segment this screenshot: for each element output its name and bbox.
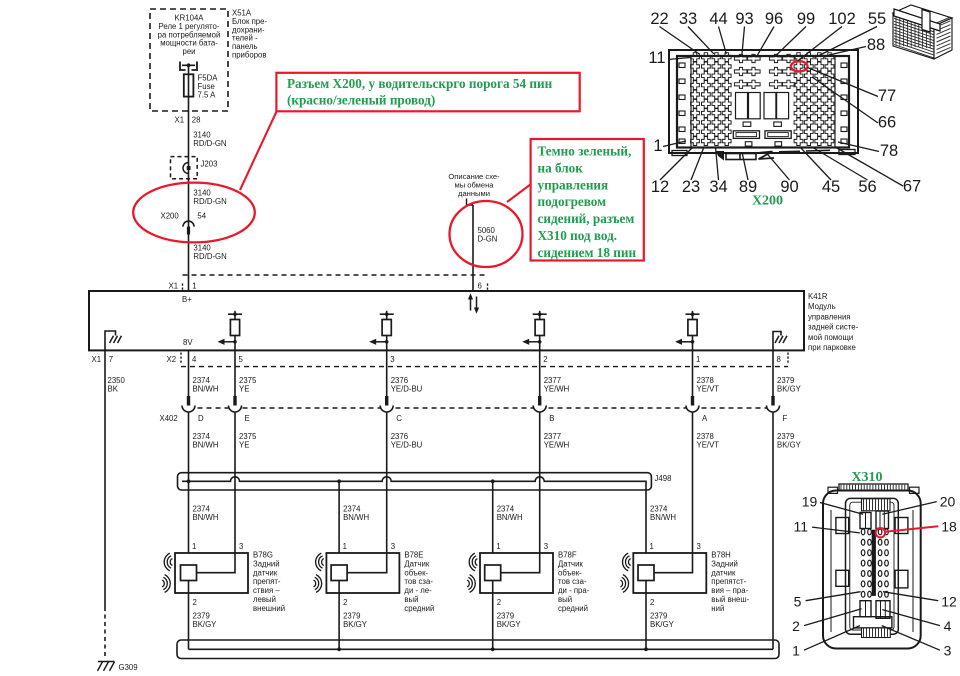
svg-text:12: 12 [651,178,669,196]
svg-text:11: 11 [648,49,665,67]
svg-text:3: 3 [239,542,243,551]
svg-text:K41R: K41R [808,292,828,301]
svg-text:3: 3 [697,542,701,551]
svg-text:X200: X200 [752,194,783,209]
svg-text:B78H: B78H [711,551,731,560]
svg-text:BN/WH: BN/WH [193,441,219,450]
svg-text:G309: G309 [119,663,138,672]
svg-text:19: 19 [802,494,818,510]
svg-text:YE/D-BU: YE/D-BU [391,441,423,450]
svg-text:1: 1 [496,542,500,551]
svg-text:1: 1 [653,137,662,155]
svg-text:45: 45 [822,178,840,196]
svg-text:J498: J498 [655,474,672,483]
svg-text:BN/WH: BN/WH [193,384,219,393]
svg-text:3: 3 [544,542,548,551]
svg-text:Датчик: Датчик [404,559,429,568]
svg-text:1: 1 [192,282,196,291]
svg-text:D: D [198,414,204,423]
svg-text:X402: X402 [160,414,178,423]
svg-text:B: B [549,414,554,423]
svg-text:12: 12 [941,594,957,610]
svg-text:2: 2 [497,598,501,607]
svg-text:X1: X1 [175,116,185,125]
svg-text:88: 88 [867,36,885,54]
svg-text:(красно/зеленый провод): (красно/зеленый провод) [287,93,435,108]
svg-text:X2: X2 [167,355,177,364]
svg-text:78: 78 [880,142,898,160]
svg-text:BK/GY: BK/GY [777,441,802,450]
svg-text:66: 66 [878,114,896,132]
svg-text:YE/WH: YE/WH [544,384,570,393]
svg-text:B78G: B78G [253,551,273,560]
svg-text:7.5 A: 7.5 A [198,90,217,99]
svg-text:2: 2 [543,355,547,364]
svg-text:8: 8 [777,355,781,364]
svg-text:приборов: приборов [232,51,267,60]
svg-text:23: 23 [682,178,700,196]
svg-text:Модуль: Модуль [808,302,836,311]
svg-text:5: 5 [794,594,802,610]
svg-text:Разъем X200, у водительскрго п: Разъем X200, у водительскрго порога 54 п… [287,76,553,91]
svg-text:реи: реи [182,47,195,56]
svg-text:средний: средний [404,604,434,613]
svg-text:102: 102 [828,10,856,28]
svg-text:Задний: Задний [253,559,280,568]
svg-text:BN/WH: BN/WH [650,513,676,522]
svg-text:34: 34 [709,178,727,196]
svg-text:B+: B+ [182,295,192,304]
svg-text:67: 67 [903,178,921,196]
svg-text:2: 2 [193,598,197,607]
svg-text:на блок: на блок [538,160,584,175]
svg-text:YE/VT: YE/VT [697,384,720,393]
svg-text:C: C [396,414,402,423]
svg-text:YE: YE [239,441,249,450]
svg-text:BN/WH: BN/WH [193,513,219,522]
svg-text:93: 93 [735,10,753,28]
svg-text:препятст-: препятст- [711,577,746,586]
svg-text:вый: вый [404,595,418,604]
svg-text:6: 6 [478,282,482,291]
svg-text:1: 1 [192,542,196,551]
svg-text:подогревом: подогревом [538,194,607,209]
svg-text:2: 2 [792,618,800,634]
svg-text:YE: YE [239,384,249,393]
svg-text:X310: X310 [851,470,882,485]
svg-text:сидением 18 пин: сидением 18 пин [538,245,637,260]
svg-text:при парковке: при парковке [808,343,856,352]
svg-text:33: 33 [679,10,697,28]
svg-text:11: 11 [794,519,809,535]
svg-text:X200: X200 [161,212,180,221]
svg-text:44: 44 [709,10,727,28]
svg-text:Задний: Задний [711,559,738,568]
svg-text:1: 1 [792,643,800,659]
svg-text:54: 54 [197,212,206,221]
svg-text:BK/GY: BK/GY [343,620,368,629]
svg-text:1: 1 [696,355,700,364]
svg-text:RD/D-GN: RD/D-GN [193,197,226,206]
svg-text:28: 28 [192,116,201,125]
svg-text:тов сза-: тов сза- [558,577,587,586]
svg-text:90: 90 [780,178,798,196]
svg-text:D-GN: D-GN [478,235,498,244]
svg-text:левый: левый [253,595,276,604]
svg-text:1: 1 [343,542,347,551]
svg-text:Датчик: Датчик [558,559,583,568]
svg-text:тов сза-: тов сза- [404,577,433,586]
svg-text:X1: X1 [169,282,179,291]
svg-text:YE/VT: YE/VT [697,441,720,450]
svg-text:YE/D-BU: YE/D-BU [391,384,423,393]
svg-text:4: 4 [944,618,952,634]
svg-text:J203: J203 [201,160,218,169]
svg-text:вый: вый [558,595,572,604]
svg-text:RD/D-GN: RD/D-GN [193,252,226,261]
svg-text:препят-: препят- [253,577,281,586]
svg-text:56: 56 [858,178,876,196]
svg-text:3: 3 [944,643,952,659]
svg-text:средний: средний [558,604,588,613]
svg-text:датчик: датчик [253,568,278,577]
svg-text:ди - ле-: ди - ле- [404,586,432,595]
svg-text:8V: 8V [183,338,193,347]
svg-text:77: 77 [878,87,896,105]
svg-text:99: 99 [797,10,815,28]
svg-text:BK: BK [108,384,119,393]
svg-text:2: 2 [650,598,654,607]
svg-text:F: F [783,414,788,423]
svg-text:3: 3 [391,542,395,551]
svg-text:вый внеш-: вый внеш- [711,595,749,604]
svg-text:E: E [245,414,250,423]
svg-text:20: 20 [940,494,956,510]
svg-text:5: 5 [239,355,244,364]
svg-text:внешний: внешний [253,604,285,613]
svg-text:7: 7 [109,355,113,364]
svg-text:BK/GY: BK/GY [777,384,802,393]
svg-text:1: 1 [650,542,654,551]
svg-text:BK/GY: BK/GY [497,620,522,629]
svg-text:сидений, разъем: сидений, разъем [538,211,635,226]
svg-text:B78E: B78E [404,551,423,560]
svg-text:4: 4 [192,355,197,364]
svg-text:X310 под вод.: X310 под вод. [538,228,618,243]
svg-text:датчик: датчик [711,568,736,577]
svg-text:BK/GY: BK/GY [650,620,675,629]
svg-text:A: A [702,414,708,423]
svg-text:18: 18 [941,519,957,535]
svg-text:BN/WH: BN/WH [343,513,369,522]
svg-text:объек-: объек- [404,568,428,577]
svg-text:X1: X1 [92,355,102,364]
svg-text:ствия –: ствия – [253,586,280,595]
svg-text:ди - пра-: ди - пра- [558,586,590,595]
svg-text:управления: управления [808,312,851,321]
svg-text:22: 22 [650,10,668,28]
svg-text:объек-: объек- [558,568,582,577]
svg-text:B78F: B78F [558,551,577,560]
svg-text:задней систе-: задней систе- [808,323,859,332]
svg-text:данными: данными [458,189,490,198]
svg-text:ний: ний [711,604,724,613]
svg-text:BN/WH: BN/WH [497,513,523,522]
svg-text:BK/GY: BK/GY [193,620,218,629]
svg-text:55: 55 [868,10,886,28]
svg-text:вия – пра-: вия – пра- [711,586,748,595]
svg-text:96: 96 [765,10,783,28]
svg-text:RD/D-GN: RD/D-GN [193,139,226,148]
svg-text:YE/WH: YE/WH [544,441,570,450]
svg-text:Темно зеленый,: Темно зеленый, [538,144,632,159]
svg-text:мой помощи: мой помощи [808,333,853,342]
svg-text:3: 3 [390,355,394,364]
svg-text:управления: управления [538,177,609,192]
svg-text:2: 2 [343,598,347,607]
